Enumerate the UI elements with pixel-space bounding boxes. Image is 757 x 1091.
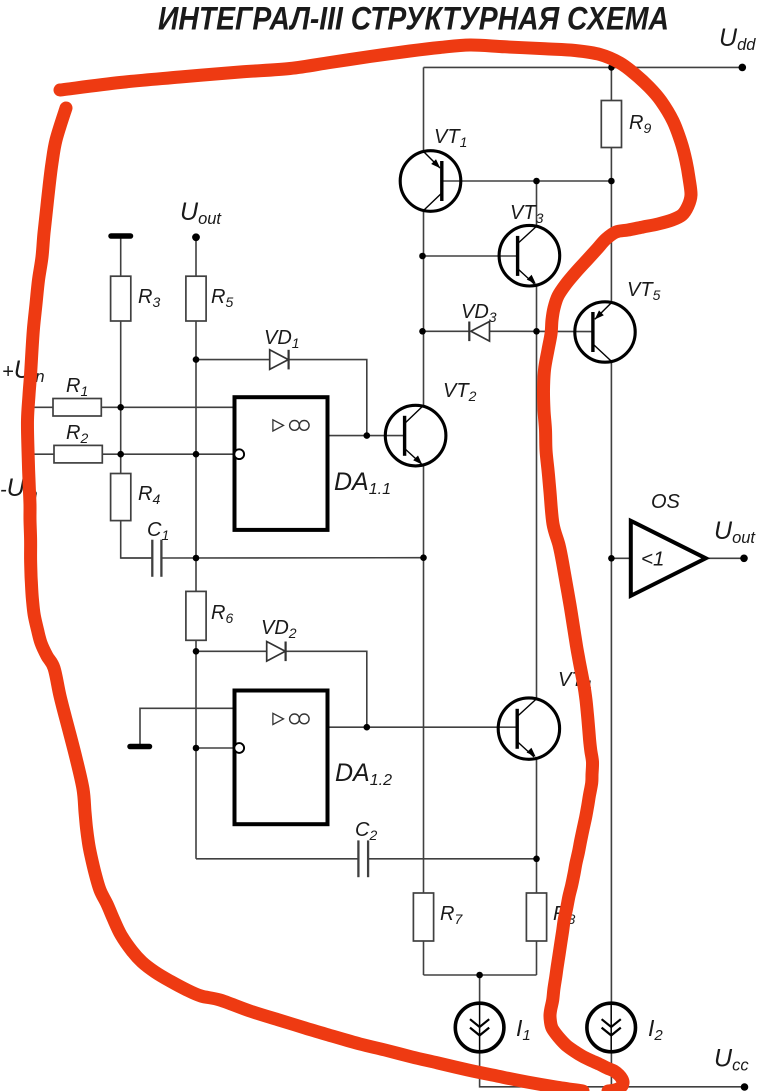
diode VD3: [469, 322, 489, 342]
wire R2 to DA1.1 minus input: [102, 453, 234, 455]
diode VD1: [270, 350, 289, 370]
svg-text:OS: OS: [651, 491, 681, 513]
wire R9 bottom to node: [610, 148, 612, 182]
transistor VT4: [498, 698, 559, 759]
svg-text:<1: <1: [641, 548, 664, 571]
wire C2 right: [368, 858, 536, 860]
node C2 VT4 emitter junction: [533, 856, 540, 863]
resistor R9: [601, 101, 621, 148]
wire -Uin to R2: [30, 453, 54, 455]
current source I1: [455, 1003, 504, 1052]
wire VD1 left: [196, 359, 270, 361]
op-amp DA1.2: [234, 691, 327, 825]
wire R5 to VD1 node: [195, 321, 197, 360]
wire VD2 node to DA1.2 minus node: [195, 651, 197, 748]
resistor R1: [53, 399, 101, 417]
wire VD1 right with down leg: [289, 360, 367, 436]
node R2 row R5 column junction: [193, 451, 200, 458]
wire VT4 collector up: [536, 331, 538, 698]
ground bar at DA1.2 plus input: [130, 744, 150, 750]
node VT3 collector: [533, 178, 540, 185]
wire C1 left: [121, 557, 153, 559]
wire R3 bottom to R1 node: [120, 321, 122, 407]
ground bar above R3: [111, 233, 131, 239]
wire I2 bottom to Ucc rail: [610, 1052, 612, 1087]
node Uout right terminal: [740, 555, 748, 563]
node Udd terminal: [739, 64, 747, 72]
wire I1 stub: [479, 975, 481, 1003]
node VD3 left: [419, 328, 426, 335]
wire VT1 column top: [423, 67, 425, 151]
wire DA1.1 output row: [329, 435, 404, 437]
wire VT1 collector down: [423, 211, 425, 406]
node top rail / R9: [608, 64, 615, 71]
op-amp DA1.1: [234, 397, 327, 530]
wire VT3 collector up: [536, 181, 538, 227]
red marker stroke left loop: [27, 108, 583, 1091]
wire R4 bottom to C1 corner: [121, 521, 153, 558]
wire R1 node to R2 node: [120, 407, 122, 454]
wire VT2 emitter down: [423, 465, 425, 558]
current source I2: [587, 1003, 636, 1052]
node DA1.2 output VD2 junction: [364, 724, 371, 731]
wire VT3 base row: [423, 255, 518, 257]
node R1 R3 junction: [117, 404, 124, 411]
diode VD2: [267, 642, 286, 662]
resistor R8: [526, 893, 546, 941]
buffer OS: [631, 521, 706, 596]
resistor R4: [111, 474, 131, 521]
wire OS output to Uout terminal: [706, 557, 744, 559]
wire +Uin to R1: [30, 406, 53, 408]
wire top Udd rail: [424, 66, 743, 68]
resistor R6: [186, 591, 206, 640]
node Ucc terminal: [741, 1083, 749, 1091]
node R6 VD2 junction: [193, 648, 200, 655]
capacitor C2: [358, 840, 368, 877]
wire node to R6: [195, 558, 197, 591]
wire R5 column to C1 node: [195, 454, 197, 558]
wire VT5 emitter up: [610, 181, 612, 303]
node R7 R8 bottom junction: [476, 972, 483, 979]
wire OS input: [611, 557, 630, 559]
wire R6 bottom to VD2 node: [195, 640, 197, 651]
wire VD3 right to VT5 base: [490, 330, 593, 332]
node DA1.2 minus input junction: [193, 745, 200, 752]
wire R9 column top: [610, 67, 612, 100]
wire DA1.2 output row to VT4 base: [328, 726, 517, 728]
wire C2 left: [196, 858, 358, 860]
wire bottom joining row: [424, 974, 537, 976]
wire R5 column mid: [195, 360, 197, 455]
node Uout top terminal: [192, 233, 200, 241]
transistor VT1: [400, 151, 461, 212]
wire VT2 emitter column to R7: [423, 558, 425, 893]
wire DA1.2 plus input to ground stub: [140, 708, 234, 744]
resistor R2: [54, 445, 102, 463]
wire VT3 emitter down: [536, 285, 538, 332]
wire R3 stub below bar: [120, 239, 122, 277]
wire R7 bottom: [423, 941, 425, 975]
wire Ucc bottom rail: [480, 1052, 745, 1087]
wire DA1.2 minus input row: [196, 747, 234, 749]
wire Uout terminal to R5: [195, 237, 197, 276]
node C1 row VT2 emitter junction: [420, 554, 427, 561]
wire VD2 right with down leg: [286, 651, 367, 727]
capacitor C1: [152, 540, 161, 577]
wire VD2 left: [196, 650, 267, 652]
node R2 R4 junction: [117, 451, 124, 458]
node VD3 right: [533, 328, 540, 335]
transistor VT3: [499, 225, 560, 286]
node DA1.1 output VD1 junction: [364, 432, 371, 439]
wire VT5 collector down to OS node: [610, 361, 612, 558]
node OS input junction: [608, 555, 615, 562]
wire R2 node to R4: [120, 454, 122, 473]
wire OS node down to I2: [610, 558, 612, 1003]
wire DA1.2 minus node down to C2 row: [195, 748, 197, 859]
transistor VT5: [575, 302, 635, 362]
node VD1 tap: [193, 356, 200, 363]
wire R8 bottom: [536, 941, 538, 975]
wire VT1 base row: [442, 180, 612, 182]
svg-text:ИНТЕГРАЛ-III СТРУКТУРНАЯ СХЕМА: ИНТЕГРАЛ-III СТРУКТУРНАЯ СХЕМА: [158, 1, 669, 37]
wire R1 to DA1.1 plus input: [101, 406, 234, 408]
wire C2 node to R8: [536, 859, 538, 893]
transistor VT2: [385, 405, 446, 466]
node R9 bottom: [608, 178, 615, 185]
resistor R3: [111, 276, 131, 321]
red marker stroke right loop: [60, 45, 691, 1091]
wire VD3 left: [424, 330, 470, 332]
node VT3 base tap: [419, 253, 426, 260]
resistor R7: [413, 893, 433, 941]
wire VT4 emitter down: [536, 759, 538, 859]
wire C1 right to VT2 emitter column: [161, 557, 423, 559]
node C1 row column junction: [193, 555, 200, 562]
resistor R5: [186, 276, 206, 321]
